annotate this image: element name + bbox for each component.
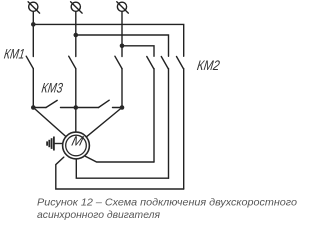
contactor KM2 pole 2 blade xyxy=(161,57,168,69)
svg-text:асинхронного двигателя: асинхронного двигателя xyxy=(37,209,160,221)
contactor KM2 pole 1 blade xyxy=(147,57,154,69)
contactor KM3 pole 2 lead xyxy=(76,107,99,109)
junction bus2 / phase B xyxy=(74,33,79,38)
wire node A to motor xyxy=(33,108,65,137)
wire KM1 pole3 to node C xyxy=(121,69,123,108)
wire bus 1 xyxy=(33,24,183,56)
wire KM1 pole2 to node B xyxy=(75,69,77,108)
contactor KM1 pole 3 blade xyxy=(115,56,122,68)
wire bottom middle to motor bottom xyxy=(76,159,168,178)
terminal L2 xyxy=(71,2,83,13)
wire bus 3 xyxy=(122,46,154,57)
svg-text:КМ1: КМ1 xyxy=(3,45,26,61)
wire phase B drop xyxy=(75,12,77,57)
junction bus1 / phase A xyxy=(31,22,36,27)
node B junction xyxy=(74,105,79,110)
svg-text:КМ2: КМ2 xyxy=(196,57,221,73)
wire KM2 pole1 down xyxy=(153,69,155,162)
motor M1 xyxy=(63,132,90,159)
wire node B to motor xyxy=(75,108,77,132)
motor M1 letter xyxy=(70,134,85,149)
wire phase A drop xyxy=(32,12,34,57)
wire KM3 pole1 to node B xyxy=(61,107,76,109)
wire phase C drop xyxy=(121,12,123,57)
junction bus3 / phase C xyxy=(120,44,125,49)
svg-text:КМ3: КМ3 xyxy=(41,80,64,96)
contactor KM3 pole 2 blade xyxy=(99,100,110,107)
contactor KM3 pole 1 blade xyxy=(46,100,57,107)
wire KM1 pole1 to node A xyxy=(32,69,34,108)
contactor KM1 pole 1 blade xyxy=(26,56,33,68)
ground (frame earth at motor) xyxy=(47,137,63,151)
contactor KM1 pole 2 blade xyxy=(69,56,76,68)
wire bottom outer to motor left xyxy=(56,157,184,189)
node C junction xyxy=(120,105,125,110)
node A junction xyxy=(31,105,36,110)
wire KM3 pole2 to node C xyxy=(113,107,123,109)
wire node C to motor xyxy=(87,108,122,137)
terminal L3 xyxy=(117,2,129,13)
contactor KM3 pole 1 lead xyxy=(33,107,46,109)
wire KM2 pole2 down xyxy=(168,69,170,179)
label KM2 xyxy=(196,57,221,73)
label KM3 xyxy=(41,80,64,96)
contactor KM2 pole 3 blade xyxy=(177,57,184,69)
svg-text:Рисунок 12 – Схема подключения: Рисунок 12 – Схема подключения двухскоро… xyxy=(37,197,297,209)
wire KM2 pole3 down xyxy=(183,69,185,189)
wire bottom inner to motor right xyxy=(85,156,154,162)
label KM1 xyxy=(3,45,26,61)
wire bus 2 xyxy=(76,35,169,56)
terminal L1 xyxy=(28,2,39,13)
